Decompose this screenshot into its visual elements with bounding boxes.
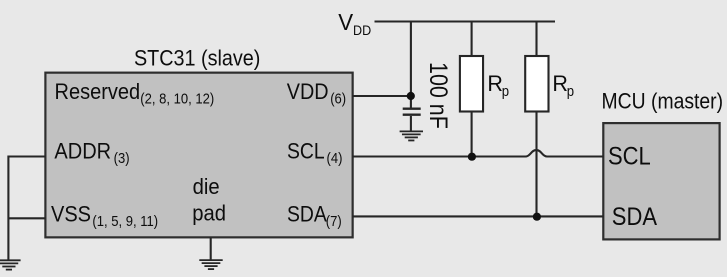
svg-text:(4): (4) — [327, 149, 343, 166]
svg-text:R: R — [487, 71, 503, 96]
svg-text:(3): (3) — [114, 149, 130, 166]
svg-text:STC31 (slave): STC31 (slave) — [134, 46, 260, 70]
svg-text:100 nF: 100 nF — [425, 62, 453, 129]
svg-text:p: p — [567, 82, 574, 99]
svg-text:SDA: SDA — [612, 203, 657, 231]
svg-text:VDD: VDD — [287, 80, 329, 104]
svg-text:MCU (master): MCU (master) — [602, 89, 724, 113]
svg-text:R: R — [552, 71, 568, 96]
svg-text:ADDR: ADDR — [54, 140, 111, 164]
svg-text:(6): (6) — [330, 89, 346, 106]
svg-text:die: die — [193, 175, 220, 199]
svg-text:pad: pad — [192, 202, 226, 226]
svg-text:(1, 5, 9, 11): (1, 5, 9, 11) — [92, 212, 158, 229]
svg-text:Reserved: Reserved — [55, 80, 141, 104]
svg-text:(7): (7) — [326, 212, 342, 229]
svg-text:DD: DD — [353, 22, 371, 38]
svg-text:p: p — [502, 82, 509, 99]
svg-text:V: V — [338, 9, 354, 36]
svg-text:SDA: SDA — [287, 203, 327, 227]
svg-text:SCL: SCL — [287, 139, 325, 163]
svg-text:VSS: VSS — [51, 203, 91, 227]
svg-text:(2, 8, 10, 12): (2, 8, 10, 12) — [140, 89, 214, 106]
svg-text:SCL: SCL — [608, 142, 651, 170]
